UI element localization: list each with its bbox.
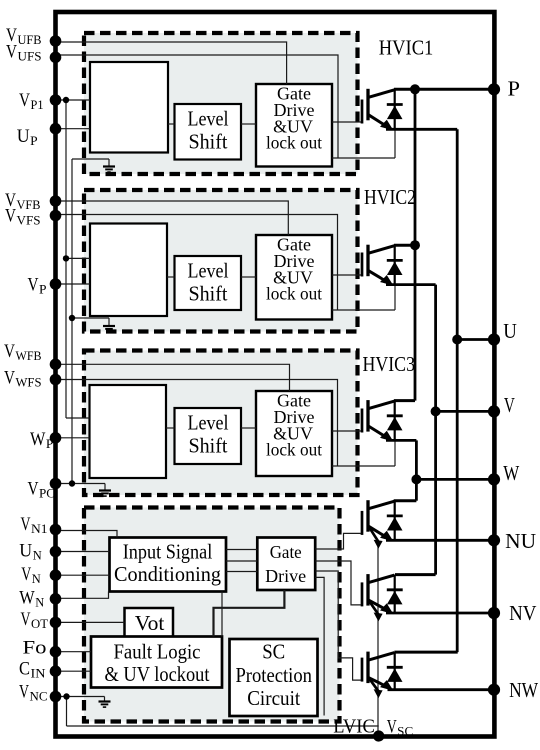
- svg-text:N: N: [35, 595, 44, 609]
- svg-text:HVIC2: HVIC2: [364, 185, 416, 209]
- svg-text:lock out: lock out: [266, 440, 322, 460]
- svg-text:HVIC1: HVIC1: [379, 35, 434, 59]
- svg-text:V: V: [19, 681, 29, 702]
- svg-text:V: V: [387, 716, 397, 737]
- svg-text:SC: SC: [397, 724, 413, 738]
- svg-text:IN: IN: [31, 667, 46, 681]
- svg-text:Level: Level: [188, 411, 229, 435]
- svg-text:& UV lockout: & UV lockout: [105, 662, 210, 686]
- svg-text:Circuit: Circuit: [247, 686, 300, 710]
- svg-text:VFB: VFB: [17, 198, 41, 212]
- svg-text:Protection: Protection: [235, 663, 312, 687]
- svg-text:V: V: [6, 42, 17, 63]
- svg-text:SC: SC: [262, 640, 285, 664]
- svg-text:C: C: [19, 659, 30, 680]
- svg-text:Gate: Gate: [270, 542, 302, 562]
- svg-text:Drive: Drive: [265, 566, 306, 586]
- svg-text:V: V: [5, 206, 16, 227]
- svg-text:Level: Level: [188, 107, 229, 131]
- svg-text:NC: NC: [30, 689, 48, 703]
- svg-text:V: V: [28, 275, 39, 296]
- svg-text:V: V: [4, 368, 15, 389]
- svg-text:V: V: [21, 609, 31, 630]
- svg-text:U: U: [503, 319, 517, 343]
- svg-text:NU: NU: [505, 529, 536, 553]
- svg-text:LVIC: LVIC: [333, 715, 375, 737]
- svg-text:V: V: [19, 90, 30, 111]
- svg-text:P1: P1: [31, 98, 44, 112]
- svg-text:W: W: [19, 587, 34, 608]
- svg-text:V: V: [28, 479, 39, 500]
- svg-text:NW: NW: [509, 678, 538, 702]
- svg-text:WFS: WFS: [16, 376, 42, 390]
- svg-text:VFS: VFS: [17, 214, 41, 228]
- svg-text:W: W: [30, 429, 45, 450]
- svg-text:P: P: [508, 77, 521, 101]
- svg-text:V: V: [4, 341, 15, 362]
- svg-text:UFB: UFB: [18, 33, 42, 47]
- svg-text:U: U: [17, 126, 30, 147]
- svg-text:Shift: Shift: [189, 129, 228, 153]
- svg-text:Fault Logic: Fault Logic: [114, 639, 201, 663]
- svg-text:P: P: [30, 134, 38, 148]
- svg-text:OT: OT: [31, 617, 48, 631]
- svg-text:lock out: lock out: [266, 284, 322, 304]
- svg-text:PC: PC: [39, 487, 55, 501]
- svg-text:Conditioning: Conditioning: [114, 562, 221, 586]
- svg-text:P: P: [39, 283, 47, 297]
- svg-text:N: N: [33, 549, 42, 563]
- svg-text:Shift: Shift: [189, 433, 228, 457]
- svg-text:Fo: Fo: [23, 638, 47, 659]
- svg-text:P: P: [46, 437, 54, 451]
- svg-text:NV: NV: [509, 601, 536, 625]
- svg-text:W: W: [503, 461, 519, 485]
- svg-text:N1: N1: [31, 522, 48, 536]
- svg-text:Shift: Shift: [189, 281, 228, 305]
- svg-text:V: V: [504, 393, 515, 417]
- svg-text:UFS: UFS: [18, 50, 42, 64]
- svg-text:U: U: [19, 541, 32, 562]
- svg-text:V: V: [21, 564, 31, 585]
- svg-text:Input Signal: Input Signal: [123, 540, 213, 564]
- svg-text:lock out: lock out: [266, 133, 322, 153]
- svg-text:N: N: [32, 572, 41, 586]
- svg-text:Level: Level: [188, 259, 229, 283]
- svg-text:HVIC3: HVIC3: [363, 352, 416, 376]
- svg-text:V: V: [21, 514, 31, 535]
- svg-text:Vot: Vot: [135, 611, 165, 635]
- svg-text:WFB: WFB: [16, 349, 42, 363]
